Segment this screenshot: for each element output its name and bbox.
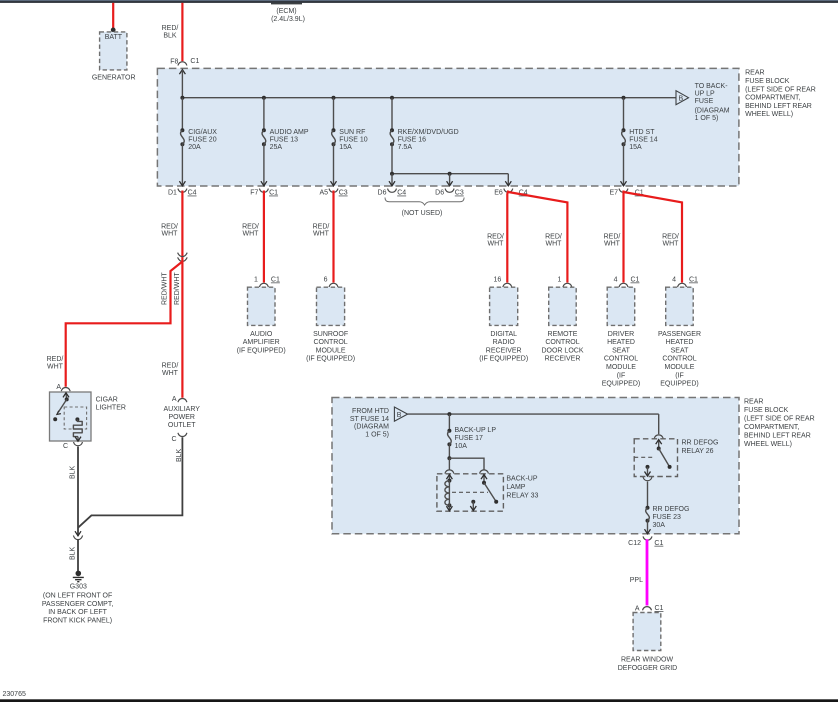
- svg-text:F7: F7: [250, 190, 258, 197]
- svg-text:BACK-UP: BACK-UP: [506, 475, 537, 482]
- svg-text:DRIVER: DRIVER: [608, 331, 634, 338]
- connector arc at remote control door lock receiver: [563, 283, 572, 287]
- wire RR DEFOG fuse to C12 out: [647, 521, 649, 534]
- svg-text:RELAY 33: RELAY 33: [506, 492, 538, 499]
- svg-text:OUTLET: OUTLET: [168, 422, 196, 429]
- svg-text:IN BACK OF LEFT: IN BACK OF LEFT: [48, 609, 107, 616]
- wire bus drop to RKE fuse: [391, 98, 393, 131]
- svg-text:F8: F8: [170, 58, 178, 65]
- label RED/WHT on E6 branch wire: [545, 233, 562, 247]
- svg-text:30A: 30A: [653, 522, 666, 529]
- svg-text:(LEFT SIDE OF REAR: (LEFT SIDE OF REAR: [745, 86, 816, 93]
- wire bus drop to CIG/AUX fuse: [181, 98, 183, 131]
- wire BLK from cigar lighter C to splice: [77, 447, 79, 536]
- cigar lighter lower switch contact: [53, 417, 57, 421]
- fuse CIG/AUX FUSE 20 20A: [180, 128, 184, 146]
- svg-text:RED/WHT: RED/WHT: [162, 272, 169, 305]
- svg-text:SUN RF: SUN RF: [339, 129, 365, 136]
- svg-text:WHT: WHT: [243, 231, 260, 238]
- svg-text:RED/: RED/: [242, 223, 259, 230]
- connector arc at driver heated seat control module: [619, 283, 628, 287]
- wire to relay coil terminal: [448, 458, 450, 469]
- arrow out D1: [179, 181, 185, 186]
- label remote control door lock receiver: [541, 331, 583, 363]
- connector arc F7/C1 at fuse block bottom: [259, 189, 268, 193]
- svg-text:(2.4L/3.9L): (2.4L/3.9L): [271, 16, 305, 23]
- ground G303 symbol: [73, 571, 84, 582]
- svg-text:DEFOGGER GRID: DEFOGGER GRID: [618, 665, 678, 672]
- relay 26 switch common contact: [657, 447, 661, 451]
- wire RED/WHT branch to cigar lighter: [66, 262, 183, 387]
- svg-text:BLK: BLK: [70, 465, 77, 479]
- svg-text:FUSE BLOCK: FUSE BLOCK: [745, 78, 790, 85]
- wire red from top to generator BATT: [112, 3, 114, 30]
- cigar lighter exit arrow: [77, 437, 79, 442]
- label RR DEFOG RELAY 26: [682, 439, 719, 455]
- svg-text:1: 1: [557, 277, 561, 284]
- svg-text:D6: D6: [378, 190, 387, 197]
- rear fuse block box: [157, 68, 739, 186]
- svg-text:WHT: WHT: [488, 241, 505, 248]
- relay 33 switch output arrow: [472, 502, 474, 511]
- svg-text:FUSE 13: FUSE 13: [270, 136, 299, 143]
- connector arc at audio amplifier U-AMP: [259, 283, 268, 287]
- svg-text:A: A: [172, 396, 177, 403]
- label TO BACK-UP LP FUSE (DIAGRAM 1 OF 5): [695, 83, 730, 122]
- wire bus drop to HTD ST fuse: [623, 98, 625, 131]
- svg-text:C: C: [63, 443, 68, 450]
- svg-text:LIGHTER: LIGHTER: [96, 405, 126, 412]
- svg-text:D1: D1: [168, 190, 177, 197]
- wire branch drop to D6-C4: [391, 174, 393, 186]
- arrow out A5: [331, 181, 337, 186]
- wire branch drop to D6-C3: [449, 174, 451, 186]
- inline connector on BLK wire (arrow into cup): [73, 531, 82, 539]
- component box audio amplifier U-AMP: [248, 287, 276, 325]
- svg-text:WHT: WHT: [162, 231, 179, 238]
- svg-text:230765: 230765: [3, 691, 26, 698]
- arrow out E6-C4: [505, 181, 511, 186]
- svg-text:10A: 10A: [455, 443, 468, 450]
- wire RED/WHT from A5 to sunroof control module: [332, 191, 334, 283]
- label RED/BLK: [162, 25, 179, 39]
- svg-text:GENERATOR: GENERATOR: [92, 74, 136, 81]
- svg-text:WHT: WHT: [546, 241, 563, 248]
- connector arc at F8: [178, 62, 187, 66]
- svg-text:RKE/XM/DVD/UGD: RKE/XM/DVD/UGD: [398, 129, 459, 136]
- svg-text:1 OF 5): 1 OF 5): [365, 431, 389, 438]
- svg-text:C1: C1: [655, 605, 664, 612]
- wire AUDIO AMP fuse to F7 out: [263, 144, 265, 186]
- svg-text:6: 6: [324, 277, 328, 284]
- generator box (BATT): [100, 32, 127, 70]
- svg-text:PPL: PPL: [630, 577, 643, 584]
- cigar lighter element contact: [75, 417, 79, 421]
- label REAR FUSE BLOCK (right): [745, 70, 816, 119]
- svg-text:AUDIO: AUDIO: [250, 331, 273, 338]
- svg-text:FUSE 10: FUSE 10: [339, 136, 368, 143]
- svg-text:TO BACK-: TO BACK-: [695, 83, 729, 90]
- svg-text:C12: C12: [628, 540, 641, 547]
- svg-text:REAR: REAR: [745, 70, 764, 77]
- svg-text:MODULE: MODULE: [665, 364, 695, 371]
- connector arc A at cigar lighter: [61, 388, 70, 392]
- fuse BACK-UP LP FUSE 17 10A: [447, 429, 451, 447]
- junction dot bus at CIG/AUX fuse: [180, 96, 184, 100]
- connector arc relay coil terminal: [445, 470, 454, 474]
- rear fuse block box 2: [332, 398, 739, 534]
- wire bus2 to RR DEFOG relay: [658, 414, 660, 434]
- fuse RKE/XM/DVD/UGD FUSE 16 7.5A: [390, 128, 394, 146]
- cigar lighter heating element coil: [73, 419, 82, 436]
- wire SUN RF fuse to A5 out: [333, 144, 335, 186]
- svg-text:(ON LEFT FRONT OF: (ON LEFT FRONT OF: [43, 593, 112, 600]
- svg-text:FUSE 23: FUSE 23: [653, 514, 682, 521]
- label RR DEFOG FUSE 23 30A: [653, 506, 690, 529]
- svg-text:AUXILIARY: AUXILIARY: [163, 406, 200, 413]
- junction dot bus2 at BACK-UP LP fuse: [447, 412, 451, 416]
- component box digital radio receiver: [490, 287, 518, 325]
- svg-text:RADIO: RADIO: [493, 339, 516, 346]
- wire from F8 entry down to bus: [181, 70, 183, 98]
- svg-text:A5: A5: [319, 190, 328, 197]
- connector arc D6/C4 at fuse block bottom: [388, 189, 397, 193]
- wire PPL to rear window defogger grid: [646, 539, 649, 605]
- label CIGAR LIGHTER: [96, 397, 126, 412]
- svg-text:20A: 20A: [188, 144, 201, 151]
- relay 33 switch blade: [484, 483, 496, 502]
- cigar lighter entry arrow: [65, 393, 68, 400]
- wire relay 26 to RR DEFOG fuse: [647, 482, 649, 508]
- svg-text:RECEIVER: RECEIVER: [545, 356, 581, 363]
- label RED/WHT on F7 wire: [242, 223, 259, 237]
- label RED/WHT on A5 wire: [313, 223, 330, 237]
- connector arc at digital radio receiver: [503, 283, 512, 287]
- svg-text:CONTROL: CONTROL: [313, 339, 347, 346]
- svg-text:A: A: [635, 606, 640, 613]
- connector arc C12/C1: [643, 536, 652, 540]
- svg-text:C1: C1: [190, 58, 199, 65]
- rear window defogger grid box: [633, 613, 661, 651]
- relay 33 coil entry arrow: [448, 475, 450, 481]
- wire bus drop to SUN RF fuse: [333, 98, 335, 131]
- svg-text:CIGAR: CIGAR: [96, 397, 118, 404]
- wire BLK from auxiliary power outlet C joining cigar lighter wire: [78, 437, 182, 527]
- svg-text:(LEFT SIDE OF REAR: (LEFT SIDE OF REAR: [744, 415, 815, 422]
- connector arc A at auxiliary power outlet: [178, 399, 187, 403]
- svg-text:EQUIPPED): EQUIPPED): [602, 381, 641, 388]
- fuse HTD ST FUSE 14 15A: [622, 128, 626, 146]
- wire HTD ST fuse to E7 out: [623, 144, 625, 186]
- wire RED/BLK from top to fuse block F8: [181, 3, 183, 62]
- connector arc E6/C4 at fuse block bottom: [504, 189, 513, 193]
- svg-text:C4: C4: [188, 190, 197, 197]
- component box sunroof control module: [317, 287, 345, 325]
- connector arc C at auxiliary power outlet: [178, 433, 187, 437]
- svg-text:C3: C3: [455, 190, 464, 197]
- svg-text:HEATED: HEATED: [666, 339, 694, 346]
- svg-text:MODULE: MODULE: [606, 364, 636, 371]
- svg-text:ST FUSE 14: ST FUSE 14: [350, 416, 389, 423]
- svg-text:15A: 15A: [629, 144, 642, 151]
- svg-text:RED/WHT: RED/WHT: [174, 272, 181, 305]
- cigar lighter switch contact: [65, 397, 69, 401]
- svg-text:WHT: WHT: [162, 370, 179, 377]
- connector arc A at defogger grid: [643, 607, 652, 611]
- relay 33 switch output contact: [471, 500, 475, 504]
- connector arc at passenger heated seat control module: [678, 283, 687, 287]
- svg-text:BATT: BATT: [105, 34, 123, 41]
- svg-text:15A: 15A: [339, 144, 352, 151]
- svg-text:COMPARTMENT,: COMPARTMENT,: [745, 95, 800, 102]
- svg-text:WHT: WHT: [663, 241, 680, 248]
- svg-text:FUSE 20: FUSE 20: [188, 136, 217, 143]
- svg-text:E6: E6: [494, 190, 503, 197]
- svg-text:CONTROL: CONTROL: [604, 356, 638, 363]
- node ECM label (partially clipped at top): [271, 3, 305, 23]
- svg-text:SUNROOF: SUNROOF: [313, 331, 348, 338]
- connector arc at sunroof control module: [329, 283, 338, 287]
- junction dot bus at HTD ST fuse: [622, 96, 626, 100]
- svg-text:AMPLIFIER: AMPLIFIER: [243, 339, 280, 346]
- svg-text:REAR WINDOW: REAR WINDOW: [621, 657, 674, 664]
- svg-text:REMOTE: REMOTE: [548, 331, 578, 338]
- svg-text:RECEIVER: RECEIVER: [486, 347, 522, 354]
- label digital radio receiver: [479, 331, 528, 363]
- inline connector splice on D1 wire: [178, 253, 188, 262]
- svg-text:(DIAGRAM: (DIAGRAM: [695, 108, 730, 115]
- svg-text:FUSE 16: FUSE 16: [398, 136, 427, 143]
- svg-text:C1: C1: [689, 277, 698, 284]
- off-page arrow B from HTD ST fuse: [394, 407, 407, 421]
- svg-text:C1: C1: [271, 277, 280, 284]
- arrow out E7: [621, 181, 627, 186]
- svg-text:COMPARTMENT,: COMPARTMENT,: [744, 424, 799, 431]
- svg-text:RR DEFOG: RR DEFOG: [653, 506, 690, 513]
- svg-text:DOOR LOCK: DOOR LOCK: [541, 347, 583, 354]
- wire branch to relay switch terminal: [449, 458, 484, 469]
- svg-text:4: 4: [672, 277, 676, 284]
- svg-text:CIG/AUX: CIG/AUX: [188, 129, 217, 136]
- connector arc relay switch terminal: [480, 470, 489, 474]
- label RED/WHT on E7 wire: [604, 233, 621, 247]
- label RED/WHT at auxiliary power outlet: [162, 363, 179, 377]
- svg-text:RED/: RED/: [662, 233, 679, 240]
- wire RED/WHT from F7 to audio amplifier: [263, 191, 265, 283]
- off-page arrow B to back-up lamp fuse: [676, 91, 689, 105]
- connector arc E7/C1 at fuse block bottom: [619, 189, 628, 193]
- junction dot at relay branch: [447, 456, 451, 460]
- wire RED/WHT branch E6 to remote door lock receiver: [508, 192, 567, 283]
- svg-text:(IF EQUIPPED): (IF EQUIPPED): [237, 347, 286, 354]
- connector arc D6/C3 at fuse block bottom: [445, 189, 454, 193]
- svg-text:AUDIO AMP: AUDIO AMP: [270, 129, 309, 136]
- cigar lighter switch blade with arrow: [57, 399, 67, 414]
- wire bus drop to AUDIO AMP fuse: [263, 98, 265, 131]
- svg-text:1: 1: [254, 277, 258, 284]
- wire RED/WHT from D1 to splice: [181, 191, 183, 258]
- svg-text:C1: C1: [269, 190, 278, 197]
- wire RED/WHT from E7 to driver heated seat module: [622, 191, 624, 283]
- label RED/WHT at cigar lighter feed: [47, 356, 64, 370]
- arrow out F7: [261, 181, 267, 186]
- svg-text:WHT: WHT: [313, 231, 330, 238]
- label REAR WINDOW DEFOGGER GRID: [618, 657, 678, 672]
- component box driver heated seat control module: [607, 287, 635, 325]
- label RED/WHT on E6 wire: [487, 233, 504, 247]
- svg-text:(IF: (IF: [617, 372, 626, 379]
- wire CIG/AUX fuse to D1 out: [181, 144, 183, 186]
- label AUXILIARY POWER OUTLET: [163, 406, 200, 429]
- label RED/WHT on D1 wire: [161, 223, 178, 237]
- svg-text:WHT: WHT: [604, 241, 621, 248]
- svg-text:RED/: RED/: [47, 356, 64, 363]
- svg-text:1 OF 5): 1 OF 5): [695, 115, 719, 122]
- svg-text:BLK: BLK: [163, 32, 177, 39]
- svg-text:C1: C1: [654, 540, 663, 547]
- label passenger heated seat control module: [658, 331, 701, 388]
- svg-text:PASSENGER COMPT,: PASSENGER COMPT,: [42, 601, 113, 608]
- component box passenger heated seat control module: [666, 287, 694, 325]
- component box remote control door lock receiver: [549, 287, 577, 325]
- svg-text:4: 4: [614, 277, 618, 284]
- label ground location: [42, 593, 113, 625]
- connector arc A5/C3 at fuse block bottom: [329, 189, 338, 193]
- junction dot at BATT terminal: [111, 28, 116, 33]
- wire RED/WHT from E6 to digital radio receiver: [507, 191, 508, 283]
- svg-text:16: 16: [494, 277, 502, 284]
- label BACK-UP LP FUSE 17 10A: [455, 427, 497, 450]
- relay 33 coil exit arrow: [448, 505, 450, 510]
- relay 26 mechanical link (dashed): [634, 456, 654, 458]
- svg-text:DIGITAL: DIGITAL: [490, 331, 517, 338]
- svg-text:WHT: WHT: [47, 363, 64, 370]
- svg-text:25A: 25A: [270, 144, 283, 151]
- svg-text:RED/: RED/: [161, 223, 178, 230]
- relay 26 entry arrow: [658, 440, 660, 449]
- label SUN RF FUSE 10 15A: [339, 129, 368, 151]
- fuse SUN RF FUSE 10 15A: [332, 128, 336, 146]
- svg-text:C4: C4: [397, 190, 406, 197]
- svg-text:(ECM): (ECM): [276, 8, 296, 15]
- label BACK-UP LAMP RELAY 33: [506, 475, 538, 499]
- relay 33 mechanical link (dashed): [452, 491, 488, 493]
- wire BLK splice to ground G303: [77, 540, 79, 572]
- connector arc C at cigar lighter: [74, 442, 83, 446]
- connector arc RR DEFOG relay terminal: [654, 435, 663, 439]
- svg-text:PASSENGER: PASSENGER: [658, 331, 701, 338]
- svg-text:MODULE: MODULE: [316, 347, 346, 354]
- svg-text:LAMP: LAMP: [506, 484, 525, 491]
- RR DEFOG relay 26 box: [634, 439, 677, 477]
- svg-text:FRONT KICK PANEL): FRONT KICK PANEL): [43, 618, 112, 625]
- svg-text:(IF EQUIPPED): (IF EQUIPPED): [306, 356, 355, 363]
- svg-text:D6: D6: [435, 190, 444, 197]
- relay 26 switch output contact: [646, 465, 650, 469]
- label RKE/XM/DVD/UGD FUSE 16 7.5A: [398, 129, 459, 151]
- label CIG/AUX FUSE 20 20A: [188, 129, 217, 151]
- label sunroof control module: [306, 331, 355, 363]
- svg-text:RED/: RED/: [545, 233, 562, 240]
- svg-text:BACK-UP LP: BACK-UP LP: [455, 427, 497, 434]
- svg-text:G303: G303: [70, 583, 87, 590]
- svg-text:C: C: [171, 436, 176, 443]
- label audio amplifier U-AMP: [237, 331, 286, 355]
- brace for not-used connectors: [385, 198, 464, 206]
- svg-text:REAR: REAR: [744, 398, 763, 405]
- svg-text:SEAT: SEAT: [612, 347, 630, 354]
- svg-text:7.5A: 7.5A: [398, 144, 413, 151]
- svg-text:WHEEL WELL): WHEEL WELL): [744, 441, 792, 448]
- wire RKE fuse to branch node: [391, 144, 393, 174]
- bottom border frame line: [0, 699, 838, 702]
- bus wire inside fuse block 2: [408, 413, 659, 415]
- svg-text:RELAY 26: RELAY 26: [682, 448, 714, 455]
- wire RED/WHT splice to auxiliary power outlet A: [181, 257, 183, 398]
- arrow out D6-C3: [447, 181, 453, 186]
- svg-text:FROM HTD: FROM HTD: [352, 408, 389, 415]
- svg-text:RR DEFOG: RR DEFOG: [682, 439, 719, 446]
- junction dot bus at RKE fuse: [390, 96, 394, 100]
- svg-text:(IF EQUIPPED): (IF EQUIPPED): [479, 356, 528, 363]
- entry arrow into fuse block from F8: [179, 70, 185, 75]
- label driver heated seat control module: [602, 331, 641, 388]
- svg-text:FUSE: FUSE: [695, 98, 714, 105]
- fuse RR DEFOG FUSE 23 30A: [646, 506, 650, 523]
- svg-text:UP LP: UP LP: [695, 90, 715, 97]
- svg-text:RED/: RED/: [162, 363, 179, 370]
- svg-text:CONTROL: CONTROL: [662, 356, 696, 363]
- svg-text:FUSE BLOCK: FUSE BLOCK: [744, 407, 789, 414]
- arrow out C12: [645, 529, 651, 534]
- wire RED/WHT branch E7 to passenger heated seat module: [624, 192, 683, 283]
- svg-text:(NOT USED): (NOT USED): [402, 210, 443, 217]
- svg-text:WHEEL WELL): WHEEL WELL): [745, 111, 793, 118]
- svg-text:(IF: (IF: [675, 372, 684, 379]
- relay 33 coil: [445, 479, 452, 508]
- svg-text:B: B: [679, 95, 684, 102]
- junction dot bus at AUDIO AMP fuse: [262, 96, 266, 100]
- label REAR FUSE BLOCK (right, box 2): [744, 398, 815, 448]
- bus wire inside fuse block: [182, 97, 676, 99]
- label AUDIO AMP FUSE 13 25A: [270, 129, 309, 151]
- svg-text:FUSE 17: FUSE 17: [455, 435, 484, 442]
- svg-text:EQUIPPED): EQUIPPED): [660, 381, 699, 388]
- cigar lighter box: [50, 392, 92, 441]
- svg-text:CONTROL: CONTROL: [545, 339, 579, 346]
- svg-text:B: B: [397, 412, 402, 419]
- junction dot RKE branch middle: [448, 172, 452, 176]
- svg-text:FUSE 14: FUSE 14: [629, 136, 658, 143]
- svg-text:HEATED: HEATED: [607, 339, 635, 346]
- back-up lamp relay 33 box: [437, 474, 504, 511]
- label RED/WHT on E7 branch wire: [662, 233, 679, 247]
- label HTD ST FUSE 14 15A: [629, 129, 658, 151]
- svg-text:C1: C1: [631, 277, 640, 284]
- svg-text:BEHIND LEFT REAR: BEHIND LEFT REAR: [745, 103, 812, 110]
- wire BACK-UP LP fuse to relay node: [448, 444, 450, 458]
- svg-text:(DIAGRAM: (DIAGRAM: [354, 424, 389, 431]
- svg-text:RED/: RED/: [487, 233, 504, 240]
- junction dot bus at SUN RF fuse: [332, 96, 336, 100]
- svg-text:POWER: POWER: [168, 414, 194, 421]
- relay 26 switch output arrow: [647, 467, 649, 476]
- svg-text:BLK: BLK: [70, 546, 77, 560]
- svg-text:RED/: RED/: [604, 233, 621, 240]
- wire branch drop to E6-C4: [507, 174, 509, 186]
- fuse AUDIO AMP FUSE 13 25A: [262, 128, 266, 146]
- svg-text:BEHIND LEFT REAR: BEHIND LEFT REAR: [744, 432, 811, 439]
